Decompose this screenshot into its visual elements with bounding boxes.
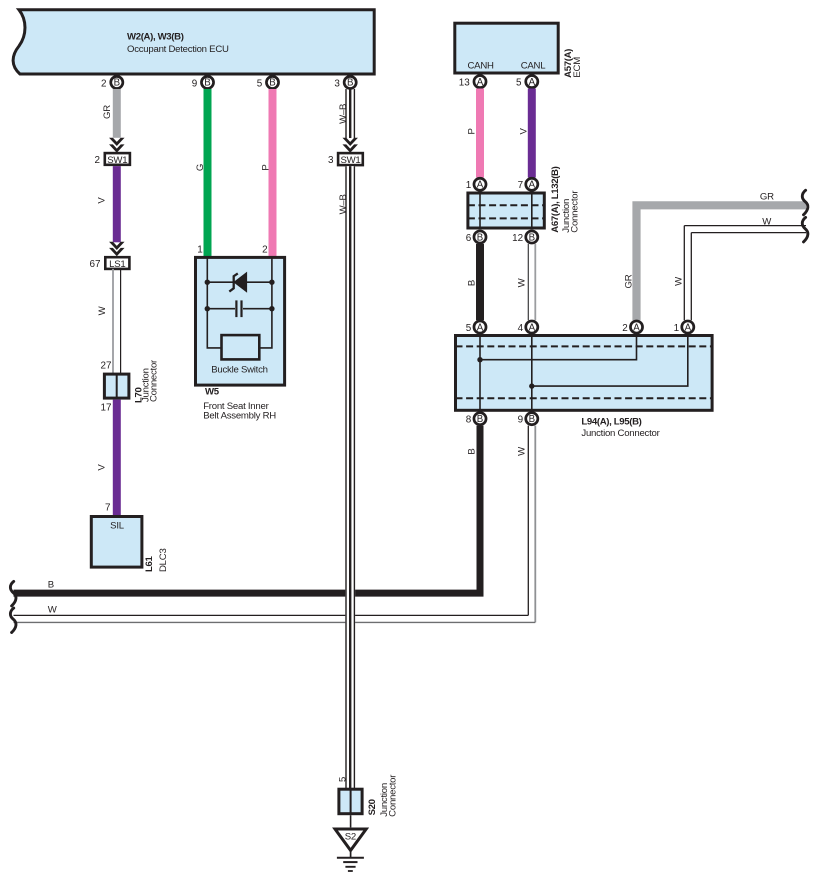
- svg-text:L61: L61: [144, 556, 155, 572]
- svg-text:W: W: [762, 217, 772, 228]
- svg-text:S2: S2: [345, 831, 356, 842]
- svg-text:V: V: [97, 197, 108, 204]
- svg-text:A67(A), L132(B): A67(A), L132(B): [550, 166, 561, 232]
- svg-text:5: 5: [337, 777, 348, 782]
- arrow into SW1 pin 2: [109, 138, 125, 153]
- wire B between A67 and L94: [467, 244, 485, 320]
- svg-text:1: 1: [466, 180, 472, 191]
- wire P CANH: [466, 89, 484, 178]
- wire V between L70 and SIL: [97, 400, 121, 515]
- svg-text:Buckle Switch: Buckle Switch: [211, 365, 267, 376]
- svg-text:W2(A), W3(B): W2(A), W3(B): [127, 32, 184, 43]
- svg-text:2: 2: [95, 155, 101, 166]
- wire W-B from ECU pin 3: [338, 89, 354, 138]
- pin 6(B) of A67: [466, 231, 486, 244]
- svg-text:B: B: [477, 414, 483, 425]
- wire G from ECU pin 9 to W5: [195, 89, 212, 257]
- arrow into SW1 pin 3: [342, 138, 358, 153]
- W5 internal left wire: [207, 257, 221, 348]
- svg-text:7: 7: [518, 180, 524, 191]
- pin 9(B) of L94: [518, 413, 538, 426]
- svg-text:B: B: [347, 78, 353, 89]
- capacitor row wire in W5: [205, 306, 275, 311]
- svg-text:1: 1: [674, 323, 680, 334]
- svg-text:Connector: Connector: [149, 359, 160, 402]
- L94 internal wire 5-2: [477, 336, 636, 411]
- pin 2(A) of L94: [622, 321, 642, 334]
- pin 7(A) of A67: [518, 178, 538, 191]
- junction connector L94/L95 box: [456, 336, 713, 439]
- svg-text:B: B: [48, 580, 54, 591]
- pin 1(A) of A67: [466, 178, 486, 191]
- wire W from right break: [673, 217, 806, 321]
- pin 3(B) of ECU: [334, 76, 356, 89]
- svg-text:S20: S20: [367, 799, 378, 815]
- svg-text:B: B: [467, 280, 478, 286]
- svg-text:B: B: [467, 448, 478, 454]
- svg-text:Connector: Connector: [570, 190, 581, 233]
- connector SW1 pin 3: [328, 153, 363, 166]
- pin 13(A) of ECM: [459, 76, 486, 89]
- svg-text:L94(A), L95(B): L94(A), L95(B): [581, 416, 641, 427]
- svg-text:B: B: [204, 78, 210, 89]
- connector LS1 pin 67: [90, 257, 130, 270]
- svg-text:W: W: [517, 446, 528, 456]
- pin 5(B) of ECU: [257, 76, 279, 89]
- break symbol GR right: [802, 190, 808, 215]
- svg-text:SIL: SIL: [110, 521, 125, 532]
- wire P from ECU pin 5 to W5: [260, 89, 276, 257]
- svg-text:A: A: [529, 77, 536, 88]
- svg-text:9: 9: [518, 415, 524, 426]
- svg-text:1: 1: [197, 245, 203, 256]
- svg-text:GR: GR: [102, 105, 113, 119]
- svg-text:W: W: [517, 277, 528, 287]
- svg-text:B: B: [269, 78, 275, 89]
- svg-text:8: 8: [466, 415, 472, 426]
- capacitor plates in W5: [236, 300, 241, 317]
- svg-text:A: A: [633, 322, 640, 333]
- pin 1(A) of L94: [674, 321, 694, 334]
- arrow into LS1 pin 67: [109, 242, 125, 257]
- DLC3 connector L61 SIL: [91, 503, 169, 573]
- svg-text:3: 3: [328, 155, 334, 166]
- svg-text:9: 9: [192, 78, 198, 89]
- pin 5(A) of ECM: [516, 76, 538, 89]
- ECU W2/W3 box: [13, 10, 374, 74]
- pin 9(B) of ECU: [192, 76, 214, 89]
- junction connector A67/L132 box: [468, 166, 581, 232]
- svg-text:A: A: [529, 180, 536, 191]
- svg-text:Connector: Connector: [388, 774, 399, 817]
- svg-text:7: 7: [105, 503, 111, 514]
- svg-text:W: W: [48, 605, 58, 616]
- junction connector S20: [337, 774, 398, 817]
- svg-text:A: A: [529, 322, 536, 333]
- svg-text:13: 13: [459, 78, 470, 89]
- svg-text:A: A: [477, 322, 484, 333]
- W5 diode row wire: [205, 280, 275, 285]
- svg-text:W: W: [673, 276, 684, 286]
- wire W between LS1 and L70: [97, 269, 121, 374]
- svg-text:12: 12: [512, 233, 523, 244]
- svg-text:DLC3: DLC3: [158, 548, 169, 572]
- switch contact box in W5: [222, 335, 260, 359]
- svg-text:4: 4: [518, 323, 524, 334]
- zener diode in W5: [229, 273, 246, 292]
- junction connector L70: [101, 359, 160, 414]
- svg-text:A: A: [477, 180, 484, 191]
- svg-text:P: P: [260, 164, 271, 170]
- L94 internal wire 4-1: [529, 336, 688, 411]
- svg-text:2: 2: [622, 323, 628, 334]
- svg-text:B: B: [114, 78, 120, 89]
- svg-text:P: P: [466, 128, 477, 134]
- svg-text:Occupant Detection ECU: Occupant Detection ECU: [127, 44, 229, 55]
- break symbol W left: [10, 608, 16, 633]
- svg-text:3: 3: [334, 78, 340, 89]
- W5 internal right wire: [259, 257, 272, 348]
- pin 8(B) of L94: [466, 413, 486, 426]
- svg-text:2: 2: [101, 78, 107, 89]
- svg-text:W–B: W–B: [338, 104, 349, 124]
- wire W between A67 and L94: [517, 244, 536, 320]
- ground symbol: [337, 851, 364, 872]
- break symbol B left: [10, 581, 16, 606]
- ECM A57 box: [455, 23, 583, 78]
- svg-text:GR: GR: [760, 191, 774, 202]
- svg-text:W–B: W–B: [338, 194, 349, 214]
- svg-text:B: B: [529, 414, 535, 425]
- svg-text:GR: GR: [623, 274, 634, 288]
- svg-text:Belt Assembly RH: Belt Assembly RH: [203, 410, 276, 421]
- pin 4(A) of L94: [518, 321, 538, 334]
- svg-text:CANL: CANL: [521, 61, 547, 72]
- connector SW1 pin 2: [95, 153, 130, 166]
- svg-text:2: 2: [262, 245, 268, 256]
- pin 5(A) of L94: [466, 321, 486, 334]
- pin 12(B) of A67: [512, 231, 538, 244]
- svg-text:5: 5: [257, 78, 263, 89]
- wire V CANL: [518, 89, 536, 178]
- svg-text:5: 5: [466, 323, 472, 334]
- wire GR from right break: [623, 191, 806, 320]
- svg-text:A: A: [477, 77, 484, 88]
- ground triangle S2: [335, 829, 366, 850]
- svg-text:27: 27: [101, 361, 112, 372]
- break symbol W right: [802, 217, 808, 242]
- svg-text:ECM: ECM: [572, 57, 583, 78]
- svg-text:G: G: [195, 164, 206, 171]
- svg-text:W5: W5: [205, 386, 220, 397]
- svg-text:B: B: [529, 232, 535, 243]
- svg-text:17: 17: [101, 403, 112, 414]
- wire W from L94 pin 9 to left break: [14, 426, 536, 623]
- svg-text:A: A: [685, 322, 692, 333]
- svg-text:67: 67: [90, 259, 101, 270]
- wire GR from ECU pin 2: [102, 89, 121, 138]
- svg-text:6: 6: [466, 233, 472, 244]
- svg-text:5: 5: [516, 78, 522, 89]
- wire B from L94 pin 8 to left break: [14, 426, 481, 593]
- svg-text:SW1: SW1: [340, 155, 360, 166]
- buckle switch W5 box: [196, 257, 285, 421]
- svg-text:LS1: LS1: [109, 259, 125, 270]
- svg-text:CANH: CANH: [468, 61, 495, 72]
- svg-text:SW1: SW1: [107, 155, 127, 166]
- wire V between SW1 and LS1: [97, 166, 121, 242]
- pin 2(B) of ECU: [101, 76, 123, 89]
- wire from S20 to ground: [350, 815, 352, 827]
- svg-text:B: B: [477, 232, 483, 243]
- svg-text:V: V: [97, 464, 108, 471]
- svg-text:V: V: [518, 127, 529, 134]
- svg-text:W: W: [97, 305, 108, 315]
- wire W-B from SW1 to S20: [338, 166, 355, 789]
- svg-text:Junction Connector: Junction Connector: [581, 428, 660, 439]
